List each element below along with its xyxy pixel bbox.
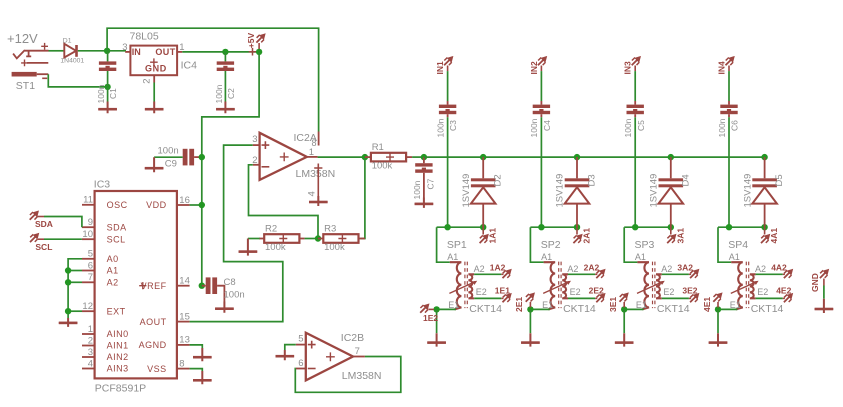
- junction C2 top: [222, 49, 228, 55]
- net flag SDA star: [30, 212, 38, 220]
- IC2B pin 5 stub: [296, 344, 307, 346]
- svg-text:SP3: SP3: [635, 239, 655, 251]
- junction C4 / primary: [538, 224, 544, 230]
- svg-text:AOUT: AOUT: [140, 317, 167, 327]
- transformer SP4 primary coil: [731, 262, 743, 309]
- junction A2: [65, 279, 71, 285]
- svg-text:E1: E1: [448, 300, 459, 310]
- svg-text:14: 14: [179, 276, 190, 287]
- svg-text:SCL: SCL: [107, 234, 126, 244]
- wire IC4 OUT to +5V node: [182, 51, 257, 53]
- svg-text:AGND: AGND: [139, 340, 167, 350]
- wire E1 junction to ground: [529, 309, 531, 333]
- svg-text:3: 3: [252, 134, 257, 145]
- capacitor C5: [634, 101, 636, 105]
- wire IC2B feedback loop: [295, 357, 401, 393]
- wire IC2B pin 5 to ground: [285, 345, 296, 350]
- svg-text:4A2: 4A2: [771, 263, 787, 273]
- wire GND flag to ground symbol: [823, 279, 825, 286]
- connector X1 DC jack symbol: [13, 50, 48, 63]
- voltage regulator IC4 78L05 box: [130, 46, 177, 76]
- net flag IN1 star: [444, 57, 452, 65]
- net flag 1A2 star: [503, 270, 511, 278]
- supply symbol +5V cross: [249, 48, 257, 56]
- svg-text:E2: E2: [476, 287, 487, 297]
- wire ST1 minus to C1 ground net: [48, 74, 105, 87]
- svg-text:A1: A1: [635, 252, 646, 262]
- ground below C1: [98, 102, 117, 114]
- wire IN2 flag to C4: [540, 66, 542, 72]
- svg-text:CKT14: CKT14: [751, 303, 784, 315]
- svg-text:SP1: SP1: [447, 239, 467, 251]
- svg-text:ST1: ST1: [16, 80, 35, 92]
- svg-text:A2: A2: [661, 264, 672, 274]
- svg-text:100n: 100n: [224, 289, 245, 300]
- svg-text:9: 9: [88, 217, 93, 228]
- junction +12V node: [104, 48, 110, 54]
- IC4 pin stubs: [125, 51, 130, 53]
- IC4 GND pin wire: [153, 75, 155, 82]
- wire secondary E2 to 4E2 flag: [756, 297, 783, 299]
- wire C1 bottom to ground: [107, 71, 109, 102]
- svg-text:15: 15: [179, 311, 190, 322]
- wire +12V node to IC4 IN: [107, 50, 126, 52]
- svg-text:7: 7: [88, 272, 93, 283]
- svg-text:LM358N: LM358N: [342, 370, 382, 382]
- svg-text:4E1: 4E1: [702, 297, 712, 312]
- svg-text:D1: D1: [63, 38, 72, 45]
- wire secondary E2 to 2E2 flag: [568, 297, 595, 299]
- wire C3 bottom across rail to transformer node: [447, 114, 449, 117]
- svg-text:A2: A2: [755, 264, 766, 274]
- svg-text:100n: 100n: [623, 118, 633, 137]
- diode D3 1SV149: [576, 157, 578, 178]
- junction C3 / primary: [444, 224, 450, 230]
- ground below C7: [415, 198, 434, 208]
- svg-text:A1: A1: [107, 266, 119, 276]
- junction EXT: [65, 308, 71, 314]
- junction E1/4E1: [715, 306, 721, 312]
- svg-text:CKT14: CKT14: [469, 303, 502, 315]
- svg-text:2: 2: [252, 155, 257, 166]
- transformer SP2 primary coil: [544, 262, 556, 309]
- svg-text:IN2: IN2: [529, 61, 539, 75]
- svg-text:GND: GND: [145, 63, 167, 73]
- net flag 1A1 star: [482, 227, 484, 234]
- svg-text:D2: D2: [493, 174, 504, 186]
- net flag 1E1 star: [503, 294, 511, 302]
- wire jack plus to diode D1: [49, 50, 64, 52]
- junction R2/R3: [315, 235, 321, 241]
- net flag 2E2 star: [596, 294, 604, 302]
- ground below IC2B pin 5: [276, 350, 295, 360]
- net flag IN4 star: [726, 57, 734, 65]
- wire C9 left to ground: [154, 156, 183, 158]
- svg-text:100n: 100n: [158, 145, 179, 156]
- wire transformer SP4 top node: [718, 226, 765, 228]
- capacitor C9: [183, 149, 194, 166]
- svg-text:A2: A2: [107, 278, 119, 288]
- net flag 2A1 star: [576, 227, 578, 234]
- net flag GND star: [820, 270, 828, 278]
- svg-text:CKT14: CKT14: [657, 303, 690, 315]
- transformer SP2 core: [559, 262, 561, 309]
- wire IN3 flag to C5: [634, 66, 636, 72]
- svg-text:AIN1: AIN1: [107, 341, 129, 351]
- svg-text:3: 3: [122, 42, 127, 53]
- transformer SP1 core: [465, 262, 467, 309]
- capacitor C3: [447, 101, 449, 105]
- wire transformer SP3 top node: [624, 226, 671, 228]
- svg-text:2: 2: [88, 335, 93, 346]
- wire E1 junction to ground: [717, 309, 719, 333]
- wire transformer SP1 top node: [437, 226, 484, 228]
- junction D3 anode: [574, 224, 580, 230]
- IC3 pin 15 AOUT stub: [177, 321, 190, 323]
- IC3 pin 3 AIN2 stub: [82, 356, 95, 358]
- net flag 3E2 star: [690, 294, 698, 302]
- svg-text:11: 11: [83, 195, 93, 206]
- svg-text:C2: C2: [226, 88, 236, 99]
- svg-text:2A1: 2A1: [582, 228, 592, 244]
- IC3 pin 5 A0 stub: [82, 258, 95, 260]
- wire to SP1 primary A1: [437, 227, 450, 262]
- wire C2 bottom to ground: [224, 71, 226, 102]
- transformer SP3 core: [653, 262, 655, 309]
- op-amp IC2B triangle: [306, 333, 353, 381]
- IC2B origin cross: [326, 352, 335, 361]
- svg-text:3: 3: [88, 347, 93, 358]
- svg-text:SCL: SCL: [35, 242, 52, 252]
- svg-text:1SV149: 1SV149: [742, 174, 753, 208]
- svg-text:SDA: SDA: [35, 219, 53, 229]
- diode D2 1SV149: [482, 157, 484, 178]
- svg-text:13: 13: [179, 335, 190, 346]
- ground left of R2: [239, 239, 258, 256]
- svg-text:E2: E2: [757, 287, 768, 297]
- wire R2-R3 node: [305, 238, 319, 240]
- wire IN1 flag to C3: [447, 66, 449, 72]
- resistor R1: [365, 156, 371, 158]
- svg-text:6: 6: [88, 260, 93, 271]
- wire secondary E2 to 3E2 flag: [662, 297, 689, 299]
- svg-text:E2: E2: [570, 287, 581, 297]
- IC3 pin 9 SDA stub: [82, 226, 95, 228]
- svg-text:E1: E1: [542, 300, 553, 310]
- IC3 pin 12 EXT stub: [82, 310, 95, 312]
- junction minus/C1-bottom: [104, 84, 110, 90]
- svg-text:EXT: EXT: [107, 306, 126, 316]
- svg-text:OSC: OSC: [107, 200, 128, 210]
- svg-text:1E1: 1E1: [495, 286, 510, 296]
- wire C5 bottom across rail to transformer node: [634, 114, 636, 117]
- ground symbol far right: [815, 299, 834, 313]
- net flag 3E1 star: [620, 294, 628, 302]
- IC2A pin 8 stub: [318, 132, 320, 146]
- transformer SP3 variable arrow: [637, 282, 663, 294]
- IC2A output pin 1 stub: [307, 156, 318, 158]
- wire primary E1 to junction: [718, 308, 737, 310]
- svg-text:4: 4: [307, 191, 318, 196]
- junction E1/3E1: [621, 306, 627, 312]
- svg-text:100n: 100n: [96, 84, 106, 103]
- wire feedback down to R3: [360, 157, 365, 238]
- transformer SP2 variable arrow: [543, 282, 569, 294]
- svg-text:R1: R1: [372, 142, 384, 153]
- junction rail / D4: [668, 154, 674, 160]
- net flag 4A1 star: [764, 227, 766, 234]
- junction C6 / primary: [726, 224, 732, 230]
- svg-text:A2: A2: [567, 264, 578, 274]
- IC2A pin 4 stub with cross: [314, 164, 322, 202]
- wire C4 bottom across rail to transformer node: [540, 114, 542, 117]
- svg-text:SDA: SDA: [107, 222, 127, 232]
- transformer SP4 variable arrow: [731, 282, 757, 294]
- wire C6 bottom across rail to transformer node: [728, 114, 730, 117]
- svg-text:PCF8591P: PCF8591P: [95, 383, 146, 395]
- svg-text:IN1: IN1: [435, 61, 445, 75]
- svg-text:IN: IN: [132, 47, 141, 57]
- svg-text:1: 1: [88, 324, 93, 335]
- transformer SP3 primary coil: [637, 262, 649, 309]
- wire SCL to IC3 pin 10: [38, 238, 44, 240]
- svg-text:IC4: IC4: [181, 59, 198, 71]
- wire primary E1 to junction: [624, 308, 643, 310]
- wire D1 cathode to +12V node: [78, 50, 106, 52]
- net flag 4E1 star: [713, 294, 721, 302]
- IC3 pin 11 OSC stub: [82, 204, 95, 206]
- svg-text:D4: D4: [680, 174, 691, 186]
- svg-text:SP2: SP2: [541, 239, 561, 251]
- svg-text:1A2: 1A2: [490, 263, 506, 273]
- IC3 pin 1 AIN0 stub: [82, 333, 95, 335]
- ground below IC2A pin 4: [309, 196, 328, 206]
- IC2A pin 2 stub: [253, 164, 261, 166]
- junction C9/+5V rail: [199, 154, 205, 160]
- svg-text:3A1: 3A1: [675, 228, 685, 244]
- wire A0/A1/A2/EXT to ground: [68, 259, 82, 318]
- transformer SP1 primary coil: [450, 262, 462, 309]
- wire primary E1 to junction: [437, 308, 456, 310]
- svg-text:6: 6: [298, 358, 303, 369]
- wire C9 right to +5V rail: [194, 156, 200, 158]
- svg-text:10: 10: [82, 229, 93, 240]
- svg-text:1A1: 1A1: [488, 228, 498, 244]
- junction E1/2E1: [527, 306, 533, 312]
- svg-text:4: 4: [88, 358, 93, 369]
- svg-text:1N4001: 1N4001: [60, 58, 84, 65]
- junction A1: [65, 267, 71, 273]
- wire VDD to +5V rail: [190, 204, 200, 206]
- IC3 pin 6 A1 stub: [82, 270, 95, 272]
- IC3 pin 7 A2 stub: [82, 281, 95, 283]
- svg-text:+5V: +5V: [246, 33, 256, 49]
- svg-text:AIN2: AIN2: [107, 352, 129, 362]
- ground below VSS: [193, 371, 212, 384]
- svg-text:2A2: 2A2: [584, 263, 600, 273]
- IC3 pin 2 AIN1 stub: [82, 345, 95, 347]
- net flag 2A2 star: [596, 270, 604, 278]
- net flag 3A1 star: [670, 227, 672, 234]
- svg-text:IC3: IC3: [94, 179, 111, 191]
- wire transformer SP2 top node: [530, 226, 577, 228]
- svg-text:D3: D3: [587, 174, 598, 186]
- svg-text:1E2: 1E2: [423, 313, 438, 323]
- wire to SP3 primary A1: [624, 227, 637, 262]
- transformer SP4 secondary coil: [750, 274, 756, 298]
- transformer SP4 core: [746, 262, 748, 309]
- svg-text:2E1: 2E1: [514, 297, 524, 312]
- svg-text:100n: 100n: [412, 180, 422, 199]
- net flag IN2 star: [538, 57, 546, 65]
- wire secondary A2 to 1A2 flag: [474, 273, 501, 275]
- svg-text:SP4: SP4: [728, 239, 748, 251]
- svg-text:1SV149: 1SV149: [555, 174, 566, 208]
- resistor R3: [318, 238, 323, 240]
- ST1 minus sign: [42, 77, 47, 79]
- svg-text:C7: C7: [426, 178, 436, 189]
- junction D5 anode: [761, 224, 767, 230]
- ground below IC4: [145, 102, 164, 114]
- junction output/R1/feedback: [362, 154, 368, 160]
- ground below C8: [215, 302, 234, 313]
- svg-text:100n: 100n: [214, 84, 224, 103]
- wire to SP2 primary A1: [530, 227, 543, 262]
- wire primary E1 to junction: [530, 308, 549, 310]
- IC3 pin 13 AGND stub: [177, 344, 190, 346]
- svg-text:3E2: 3E2: [682, 286, 697, 296]
- svg-text:C9: C9: [165, 158, 177, 169]
- junction rail / D5: [761, 154, 767, 160]
- transformer SP1 variable arrow: [449, 282, 475, 294]
- IC2A minus input marker: [262, 166, 270, 168]
- svg-text:LM358N: LM358N: [296, 168, 336, 180]
- IC3 pin 4 AIN3 stub: [82, 368, 95, 370]
- transformer SP1 secondary coil: [468, 274, 474, 298]
- svg-text:4E2: 4E2: [776, 286, 791, 296]
- diode D4 1SV149: [670, 157, 672, 178]
- wire IC2A output to R1: [318, 156, 363, 158]
- net flag 4E2 star: [784, 294, 792, 302]
- wire analog rail C7 to D5: [424, 156, 765, 158]
- svg-text:R2: R2: [265, 223, 277, 234]
- wire AGND to ground: [190, 345, 203, 348]
- svg-text:5: 5: [88, 249, 93, 260]
- IC3 pin 14 VREF stub: [177, 285, 190, 287]
- svg-text:E2: E2: [663, 287, 674, 297]
- svg-text:AIN0: AIN0: [107, 329, 129, 339]
- IC3 VREF origin cross: [139, 282, 146, 289]
- svg-text:+12V: +12V: [7, 31, 38, 46]
- wire VSS to ground: [190, 369, 203, 371]
- svg-text:78L05: 78L05: [130, 30, 159, 42]
- svg-text:12: 12: [82, 301, 93, 312]
- svg-text:A2: A2: [474, 264, 485, 274]
- IC3 pin 10 SCL stub: [82, 238, 95, 240]
- svg-text:VSS: VSS: [147, 364, 167, 374]
- wire AOUT to IC2A pin 3: [190, 145, 283, 322]
- svg-text:100k: 100k: [372, 161, 393, 172]
- svg-text:C4: C4: [542, 120, 552, 131]
- transformer SP3 secondary coil: [656, 274, 662, 298]
- capacitor C6: [728, 101, 730, 105]
- svg-text:IN4: IN4: [716, 61, 726, 75]
- IC2A pin 3 stub: [253, 144, 261, 146]
- ground left of C9: [145, 157, 164, 172]
- net flag 4A2 star: [784, 270, 792, 278]
- wire E1 junction to ground: [623, 309, 625, 333]
- IC4 origin cross: [150, 58, 158, 66]
- ERC flag at +5V: [256, 35, 264, 43]
- wire C7 bottom to ground: [423, 173, 425, 198]
- svg-text:C3: C3: [448, 120, 458, 131]
- wire E1 junction to ground: [436, 309, 438, 333]
- svg-text:C8: C8: [224, 277, 236, 288]
- svg-text:GND: GND: [810, 273, 820, 292]
- svg-text:C5: C5: [636, 120, 646, 131]
- svg-text:100k: 100k: [324, 242, 345, 253]
- svg-text:OUT: OUT: [155, 47, 175, 57]
- svg-text:3E1: 3E1: [608, 297, 618, 312]
- wire SDA to IC3 pin 9: [38, 216, 45, 218]
- svg-text:100n: 100n: [435, 118, 445, 137]
- capacitor C7: [423, 157, 425, 163]
- ground below C2: [216, 102, 235, 114]
- junction +5V node: [256, 49, 262, 55]
- wire secondary A2 to 2A2 flag: [568, 273, 595, 275]
- wire IC2A pin2 to R2/R3 node: [249, 165, 319, 237]
- svg-text:A1: A1: [729, 252, 740, 262]
- wire +5V node down-left to VDD rail: [202, 52, 259, 286]
- junction E1/1E2: [433, 306, 439, 312]
- svg-text:2: 2: [142, 79, 153, 84]
- svg-text:3A2: 3A2: [677, 263, 693, 273]
- svg-text:D5: D5: [774, 174, 785, 186]
- svg-text:100n: 100n: [529, 118, 539, 137]
- svg-text:16: 16: [179, 195, 190, 206]
- wire to SP4 primary A1: [718, 227, 731, 262]
- svg-text:100k: 100k: [265, 242, 286, 253]
- wire secondary A2 to 3A2 flag: [662, 273, 689, 275]
- IC2A plus input marker: [262, 141, 270, 149]
- net flag 3A2 star: [690, 270, 698, 278]
- connector ST1 pad: [12, 72, 37, 77]
- IC2B minus input marker: [308, 368, 316, 370]
- diode D1 1N4001: [64, 44, 76, 58]
- ground below AGND: [193, 348, 212, 361]
- svg-text:4A1: 4A1: [769, 228, 779, 244]
- IC2B plus input marker: [308, 341, 316, 349]
- svg-text:A1: A1: [447, 252, 458, 262]
- svg-text:8: 8: [179, 358, 184, 369]
- wire +12V top rail to IC2A pin 8: [107, 28, 319, 131]
- junction D2 anode: [480, 224, 486, 230]
- junction VDD: [199, 202, 205, 208]
- ground below SP1: [427, 333, 446, 346]
- net flag SCL star: [30, 234, 38, 242]
- svg-text:1SV149: 1SV149: [461, 174, 472, 208]
- IC IC3 PCF8591P box: [95, 191, 177, 378]
- ground below SP3: [615, 333, 634, 346]
- op-amp IC2A triangle: [260, 133, 307, 180]
- net flag 2E1 star: [526, 294, 534, 302]
- capacitor C1: [107, 52, 109, 61]
- svg-text:IN3: IN3: [623, 61, 633, 75]
- svg-text:5: 5: [298, 333, 303, 344]
- ground below address pins: [59, 318, 78, 327]
- svg-text:IC2B: IC2B: [341, 332, 364, 344]
- wire R2 left to ground: [248, 238, 260, 240]
